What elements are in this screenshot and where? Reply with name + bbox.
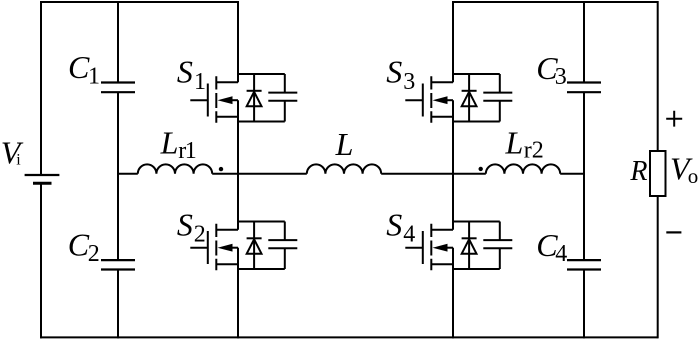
wire left rail lower: [40, 183, 42, 338]
capacitor C2: [101, 260, 135, 269]
inductor Lr1: [138, 164, 212, 173]
wire right rail lower: [657, 196, 659, 338]
wire C3-C4 branch upper: [583, 1, 585, 83]
wire C3-C4 branch lower: [583, 270, 585, 339]
svg-text:C: C: [68, 226, 90, 262]
wire C3-C4 branch middle: [583, 92, 585, 260]
wire S2 source: [237, 248, 239, 339]
wire top-left rail: [40, 1, 238, 3]
parallel capacitor of S1: [268, 74, 297, 122]
svg-text:S: S: [177, 207, 193, 243]
parallel capacitor of S3: [483, 74, 512, 122]
wire top-right rail: [453, 1, 658, 3]
body diode of S3: [462, 74, 477, 122]
svg-text:L: L: [505, 124, 524, 160]
body diode of S4: [462, 222, 477, 270]
MOSFET S2: [190, 224, 238, 270]
svg-text:1: 1: [185, 138, 197, 164]
svg-text:1: 1: [194, 69, 206, 95]
svg-text:R: R: [629, 156, 647, 187]
resistor R: [650, 151, 666, 196]
svg-text:L: L: [160, 124, 179, 160]
svg-text:C: C: [68, 49, 90, 85]
wire C1-C2 branch upper: [117, 1, 119, 83]
wire right rail upper: [657, 1, 659, 151]
svg-text:3: 3: [403, 69, 415, 95]
wire C1-C2 branch middle: [117, 92, 119, 260]
capacitor C4: [567, 260, 601, 269]
svg-text:4: 4: [403, 221, 415, 247]
wire left rail upper: [40, 1, 42, 175]
wire bottom rail: [40, 336, 658, 338]
svg-text:S: S: [386, 54, 402, 90]
svg-text:L: L: [335, 126, 354, 162]
wire S3 source to S4 drain: [452, 100, 454, 230]
MOSFET S4: [405, 224, 453, 270]
wire mid rail right-center: [381, 173, 486, 175]
inductor L: [307, 164, 381, 173]
parallel capacitor of S2: [268, 222, 297, 270]
wire mid rail left stub: [118, 173, 138, 175]
svg-text:S: S: [386, 207, 402, 243]
capacitor C3: [567, 83, 601, 93]
MOSFET S3: [405, 76, 453, 122]
polarity dot of Lr1: [219, 167, 223, 171]
wire mid rail right stub: [560, 173, 584, 175]
wire S4 parallel-branch loop: [453, 222, 500, 270]
wire S1 drain: [237, 1, 239, 82]
svg-text:2: 2: [88, 241, 100, 267]
plus sign: [666, 111, 682, 127]
wire S1 source to S2 drain: [237, 100, 239, 230]
svg-text:1: 1: [88, 64, 100, 90]
wire C1-C2 branch lower: [117, 270, 119, 339]
svg-text:4: 4: [555, 241, 567, 267]
wire S3 parallel-branch loop: [453, 74, 500, 122]
battery Vi long plate: [25, 174, 60, 176]
svg-text:r2: r2: [524, 138, 544, 164]
polarity dot of Lr2: [479, 167, 483, 171]
svg-text:i: i: [16, 152, 21, 169]
wire S2 parallel-branch loop: [238, 222, 285, 270]
battery Vi short plate: [33, 182, 52, 185]
wire S4 source: [452, 248, 454, 339]
minus sign: [666, 231, 681, 233]
svg-text:S: S: [177, 54, 193, 90]
svg-text:2: 2: [194, 221, 206, 247]
MOSFET S1: [190, 76, 238, 122]
capacitor C1: [101, 83, 135, 93]
svg-text:3: 3: [555, 64, 567, 90]
wire S3 drain: [452, 1, 454, 82]
body diode of S1: [247, 74, 262, 122]
wire mid rail left-center: [212, 173, 307, 175]
wire S1 parallel-branch loop: [238, 74, 285, 122]
inductor Lr2: [486, 164, 560, 173]
svg-text:o: o: [688, 164, 699, 188]
body diode of S2: [247, 222, 262, 270]
parallel capacitor of S4: [483, 222, 512, 270]
